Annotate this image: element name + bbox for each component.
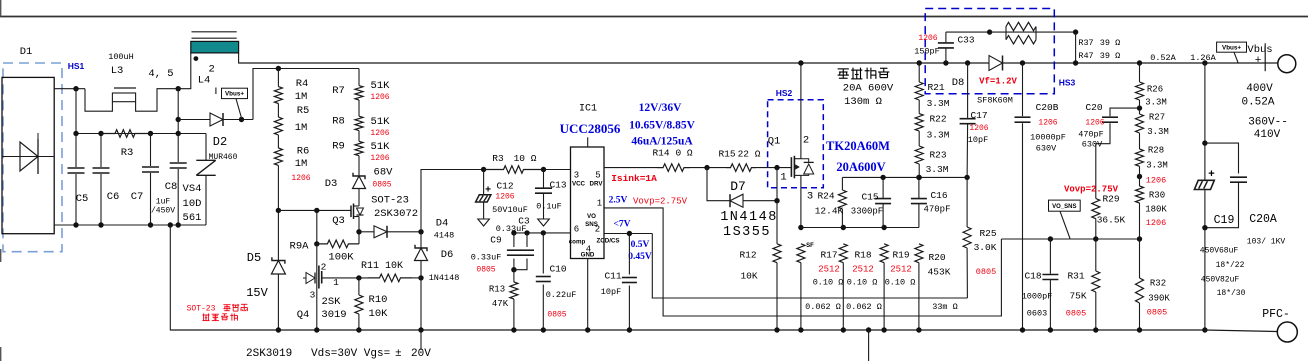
svg-text:C15: C15: [861, 192, 878, 203]
heatsink box HS1 around bridge D1: [3, 63, 62, 252]
svg-text:SF: SF: [806, 243, 814, 249]
IC1 top stub: [587, 137, 589, 147]
svg-text:SF8K60M: SF8K60M: [977, 96, 1013, 106]
node C20B bus: [1020, 60, 1025, 65]
svg-text:ZCD/CS: ZCD/CS: [596, 238, 619, 245]
wire D7 left drop: [707, 168, 730, 201]
svg-text:R4: R4: [296, 78, 309, 90]
svg-text:0.33uF: 0.33uF: [496, 224, 527, 234]
wire C20A branch: [1205, 143, 1239, 173]
node R29 bottom: [1093, 236, 1098, 241]
node D7 anode: [774, 198, 779, 203]
svg-text:1206: 1206: [969, 124, 988, 133]
svg-text:C17: C17: [970, 110, 987, 121]
node D6 bottom: [418, 327, 423, 332]
diode D4: [374, 226, 387, 238]
node R28 R30 junction: [1137, 174, 1142, 179]
node R19 bottom: [881, 327, 886, 332]
resistor R25: [966, 177, 968, 227]
wire VCC riser: [421, 170, 484, 232]
zener D6: [420, 232, 422, 248]
svg-text:C5: C5: [76, 193, 89, 205]
node C18 bottom: [1048, 327, 1053, 332]
svg-text:2SK: 2SK: [322, 296, 342, 308]
svg-text:3.3M: 3.3M: [1146, 161, 1168, 171]
resistor R13: [513, 270, 515, 282]
snubber resistor R37: [1005, 27, 1007, 33]
node R19 top: [881, 225, 886, 230]
node R32 bottom: [1137, 327, 1142, 332]
node C18 top: [1048, 236, 1053, 241]
wire gnd to PFC-: [1205, 330, 1277, 332]
svg-text:10D: 10D: [183, 198, 202, 210]
capacitor C9: [513, 233, 515, 247]
svg-text:R11 10K: R11 10K: [361, 261, 403, 272]
capacitor C7: [150, 134, 152, 167]
node R11 tap: [418, 275, 423, 280]
transistor Q4: [316, 244, 318, 330]
svg-text:18*/22: 18*/22: [1216, 261, 1245, 270]
svg-text:1S355: 1S355: [723, 225, 771, 240]
svg-text:0.062 Ω: 0.062 Ω: [846, 302, 882, 312]
node C33 bus: [943, 60, 948, 65]
wire pin3: [544, 169, 571, 171]
node Q1 source: [798, 225, 803, 230]
inductor L4 core bars: [192, 31, 237, 33]
svg-text:68V: 68V: [374, 167, 394, 179]
resistor R31: [1095, 239, 1097, 271]
svg-text:R23: R23: [929, 150, 946, 161]
svg-text:3: 3: [574, 171, 579, 181]
wire pin2 route down: [652, 234, 967, 299]
svg-text:4, 5: 4, 5: [148, 68, 173, 80]
wire comp line: [514, 232, 571, 234]
svg-text:2SK3072: 2SK3072: [374, 208, 418, 220]
svg-text:1: 1: [333, 277, 339, 288]
svg-text:R3: R3: [492, 153, 504, 164]
svg-text:1206: 1206: [1038, 119, 1057, 128]
svg-text:L3: L3: [111, 65, 124, 77]
node C11 bottom: [627, 327, 632, 332]
node Q1 drain bus: [798, 60, 803, 65]
svg-text:100uH: 100uH: [108, 52, 134, 62]
wire D2 cathode up to second bus: [253, 69, 359, 120]
node C16 top: [916, 175, 921, 180]
capacitor C12 polarized: [483, 170, 485, 195]
wire R9A right up: [358, 232, 360, 244]
svg-text:R3: R3: [121, 147, 134, 159]
svg-text:0 Ω: 0 Ω: [675, 148, 692, 159]
wire main ground bus: [170, 329, 1205, 331]
wire Q3 gate line: [278, 209, 351, 211]
svg-text:450V68uF: 450V68uF: [1200, 247, 1239, 256]
svg-text:410V: 410V: [1254, 129, 1281, 141]
wire bridge+ to node: [54, 88, 85, 90]
ground arrow C12: [478, 219, 490, 226]
diode D2: [210, 113, 223, 126]
wire snubber right down: [1075, 32, 1077, 63]
svg-text:5: 5: [595, 171, 600, 181]
Vbus+ label box near D2: [222, 88, 248, 98]
wire CS node line: [801, 227, 919, 229]
wire R15 to gate: [756, 167, 791, 169]
svg-text:20A 600V: 20A 600V: [843, 83, 894, 95]
svg-text:360V--: 360V--: [1248, 117, 1288, 129]
resistor R3 vcc: [484, 166, 544, 174]
svg-text:1uF: 1uF: [156, 198, 171, 207]
wire pin2 route: [604, 233, 652, 235]
resistor R4: [277, 69, 279, 87]
inductor L3 winding: [85, 89, 112, 112]
svg-text:PFC-: PFC-: [1262, 308, 1290, 321]
capacitor C10: [542, 233, 544, 274]
node D7 top: [704, 165, 709, 170]
svg-text:IC1: IC1: [579, 104, 597, 115]
bridge rectifier internal line: [2, 156, 54, 158]
node C13 top: [541, 167, 546, 172]
node R31 bottom: [1093, 327, 1098, 332]
svg-text:1M: 1M: [295, 158, 308, 170]
node C17 bus: [965, 60, 970, 65]
svg-text:10.65V/8.85V: 10.65V/8.85V: [629, 120, 696, 132]
node cap bus left: [73, 131, 78, 136]
svg-text:0805: 0805: [547, 311, 566, 320]
node D5 bottom: [276, 327, 281, 332]
svg-text:150pF: 150pF: [914, 47, 940, 57]
svg-text:R24: R24: [817, 191, 834, 202]
resistor R20: [915, 244, 923, 263]
resistor R10: [358, 278, 360, 295]
node B L3/L4 junction: [176, 86, 181, 91]
resistor R12: [776, 201, 778, 244]
node R6 bottom gate node: [276, 208, 281, 213]
svg-text:R7: R7: [332, 85, 345, 97]
resistor R15: [726, 164, 756, 172]
node R26 top: [1137, 60, 1142, 65]
svg-text:R26: R26: [1147, 85, 1163, 95]
svg-text:1206: 1206: [1146, 218, 1166, 228]
snubber wire mid: [990, 31, 1076, 33]
resistor R18: [839, 244, 847, 263]
svg-text:18*/30: 18*/30: [1217, 289, 1246, 298]
svg-text:HS2: HS2: [776, 88, 793, 98]
resistor R28: [1139, 133, 1141, 149]
svg-text:Q1: Q1: [768, 136, 781, 148]
svg-text:1206: 1206: [1146, 176, 1166, 186]
svg-text:R19: R19: [892, 250, 909, 261]
svg-text:75K: 75K: [1069, 291, 1086, 302]
svg-text:D6: D6: [441, 249, 454, 261]
svg-text:3: 3: [807, 191, 813, 203]
svg-text:50V10uF: 50V10uF: [492, 205, 528, 215]
svg-text:D4: D4: [436, 218, 449, 230]
resistor R29: [1092, 199, 1100, 219]
node Q3 source: [356, 229, 361, 234]
svg-text:Vbus+: Vbus+: [1222, 44, 1241, 51]
svg-text:C18: C18: [1024, 271, 1041, 282]
svg-text:3: 3: [310, 290, 316, 301]
wire D4 cathode: [387, 231, 421, 233]
wire main top bus D8 to Vbus: [1003, 62, 1278, 64]
IC1 box: [571, 147, 605, 259]
wire gate down to D7: [776, 168, 778, 201]
wire Q1 drain: [800, 63, 802, 159]
svg-text:3.3M: 3.3M: [927, 130, 950, 141]
resistor R9: [358, 131, 360, 142]
resistor R17: [797, 244, 805, 263]
svg-text:453K: 453K: [928, 267, 951, 278]
svg-text:C20A: C20A: [1249, 213, 1277, 226]
capacitor C11: [628, 234, 630, 275]
svg-text:2: 2: [803, 135, 809, 147]
svg-text:12.4K: 12.4K: [815, 206, 844, 217]
svg-text:R18: R18: [854, 250, 871, 261]
svg-text:0.10 Ω: 0.10 Ω: [813, 278, 844, 288]
snubber resistor R47: [1005, 32, 1007, 40]
leader Vbus+ right: [1234, 52, 1238, 63]
node R30 bottom: [1137, 236, 1142, 241]
svg-text:390K: 390K: [1148, 294, 1170, 304]
wire node down to cap bus: [75, 89, 77, 134]
capacitor C19 polarized: [1204, 171, 1206, 181]
L4 polarity dot: [194, 56, 199, 61]
svg-text:0.1uF: 0.1uF: [536, 202, 562, 212]
resistor R5: [277, 104, 279, 118]
svg-text:C20B: C20B: [1036, 102, 1059, 113]
svg-text:3.0K: 3.0K: [974, 242, 997, 253]
node output drop: [1202, 60, 1207, 65]
svg-text:SOT-23: SOT-23: [371, 195, 409, 207]
svg-text:33m Ω: 33m Ω: [932, 302, 958, 312]
svg-text:400V: 400V: [1246, 83, 1273, 95]
wire caps to gnd: [1204, 228, 1206, 330]
node R18 bottom: [841, 327, 846, 332]
wire R14 to R15: [690, 167, 726, 169]
svg-text:470pF: 470pF: [1078, 130, 1104, 140]
svg-text:DRV: DRV: [590, 181, 604, 188]
wire L4 right pin to top bus: [239, 53, 250, 63]
svg-text:R30: R30: [1149, 191, 1165, 201]
node C6 bottom: [98, 222, 103, 227]
svg-text:630V: 630V: [1036, 144, 1057, 154]
svg-text:C6: C6: [107, 191, 120, 203]
svg-text:R12: R12: [739, 250, 756, 261]
zener D3: [358, 156, 360, 176]
node R12 bottom: [774, 327, 779, 332]
wire input bottom bus: [54, 224, 206, 226]
wire ZCD node line: [842, 176, 967, 178]
svg-text:R20: R20: [928, 252, 945, 263]
svg-text:1M: 1M: [295, 122, 308, 134]
node R18 top: [841, 225, 846, 230]
svg-text:0.33uF: 0.33uF: [471, 253, 502, 263]
node C15 top: [880, 175, 885, 180]
svg-text:3019: 3019: [321, 309, 346, 321]
svg-text:C9: C9: [490, 235, 502, 246]
svg-text:D5: D5: [247, 251, 261, 265]
wire snubber top left: [946, 31, 990, 33]
resistor R9A: [317, 240, 359, 248]
leader VO_SNS: [1060, 211, 1070, 238]
svg-text:2.5V: 2.5V: [609, 196, 628, 206]
node R26 R27 junction: [1137, 105, 1142, 110]
svg-text:C7: C7: [131, 191, 144, 203]
svg-text:/450V: /450V: [151, 207, 175, 216]
node C8 bottom: [176, 222, 181, 227]
node C6 top: [98, 131, 103, 136]
node gate D7: [774, 165, 779, 170]
svg-text:1206: 1206: [495, 193, 514, 202]
svg-text:2: 2: [595, 225, 600, 235]
svg-text:130m Ω: 130m Ω: [844, 96, 882, 108]
svg-text:R21: R21: [927, 82, 944, 93]
svg-text:10 Ω: 10 Ω: [514, 153, 537, 164]
svg-text:36.5K: 36.5K: [1097, 215, 1126, 226]
node R9A left: [314, 241, 319, 246]
note actual-selection cjk: [838, 68, 849, 70]
Vbus+ label box: [1217, 42, 1247, 52]
note package small cjk: [202, 314, 209, 316]
svg-text:R22: R22: [929, 114, 946, 125]
wire node B down: [177, 89, 179, 134]
svg-text:R8: R8: [332, 116, 345, 128]
node R20 bottom: [916, 327, 921, 332]
svg-text:10K: 10K: [740, 271, 757, 282]
svg-text:D7: D7: [730, 179, 746, 194]
svg-text:20A600V: 20A600V: [836, 160, 885, 174]
node R21 top: [917, 60, 922, 65]
svg-text:1.26A: 1.26A: [1190, 53, 1216, 63]
VO_SNS label box: [1049, 200, 1081, 211]
node gnd stub: [866, 327, 871, 332]
wire DRV out: [604, 167, 657, 169]
node C10 bottom: [541, 327, 546, 332]
svg-text:0.10 Ω: 0.10 Ω: [847, 278, 878, 288]
svg-text:R6: R6: [297, 146, 310, 158]
svg-text:±: ±: [395, 348, 402, 360]
svg-text:R14: R14: [652, 148, 669, 159]
ground arrow C13: [538, 219, 550, 226]
svg-text:C33: C33: [957, 35, 974, 46]
capacitor C20B: [1022, 63, 1024, 116]
svg-text:comp: comp: [569, 239, 586, 246]
svg-text:4148: 4148: [434, 231, 454, 241]
svg-text:10000pF: 10000pF: [1030, 133, 1066, 143]
node bridge plus: [73, 86, 78, 91]
capacitor C5: [75, 134, 77, 168]
svg-text:0.22uF: 0.22uF: [546, 290, 577, 300]
svg-text:C12: C12: [496, 181, 513, 192]
zener D5: [277, 210, 279, 260]
node C9 top: [511, 230, 516, 235]
diode D8: [989, 56, 1003, 71]
svg-text:Isink=1A: Isink=1A: [611, 173, 657, 184]
resistor R26: [1139, 63, 1141, 82]
svg-text:VO_SNS: VO_SNS: [1052, 204, 1076, 210]
resistor R32: [1139, 239, 1141, 278]
svg-text:46uA/125uA: 46uA/125uA: [631, 136, 693, 148]
transistor Q3: [350, 206, 352, 218]
tick near Vbus+ box: [215, 88, 217, 95]
svg-text:Vovp=2.75V: Vovp=2.75V: [1064, 185, 1119, 195]
capacitor C13: [543, 170, 545, 189]
wire second bus to R7: [358, 69, 360, 86]
svg-text:0.10 Ω: 0.10 Ω: [885, 278, 916, 288]
svg-text:15V: 15V: [246, 286, 268, 300]
capacitor C3: [526, 233, 528, 247]
capacitor C20A: [1230, 176, 1247, 178]
node R10 top: [356, 275, 361, 280]
heatsink box HS2: [768, 100, 824, 188]
wire main top bus L4 to D8: [239, 62, 989, 64]
inductor L3 core bar: [114, 87, 136, 89]
svg-text:6: 6: [574, 225, 579, 235]
svg-text:C8: C8: [165, 181, 178, 193]
node gnd drop: [168, 222, 173, 227]
diode D7: [729, 194, 731, 207]
svg-text:C20: C20: [1085, 102, 1102, 113]
node C9 bottom: [511, 267, 516, 272]
svg-text:2: 2: [321, 262, 327, 273]
svg-text:180K: 180K: [1145, 205, 1167, 215]
svg-text:450V82uF: 450V82uF: [1201, 276, 1240, 285]
svg-text:VS4: VS4: [183, 183, 202, 195]
node snubber bus right: [1073, 60, 1078, 65]
svg-text:UCC28056: UCC28056: [560, 121, 621, 136]
svg-text:10pF: 10pF: [968, 135, 988, 145]
wire pin1 route: [604, 208, 1001, 316]
inductor L4 body: [191, 41, 239, 53]
node C5 bottom: [73, 222, 78, 227]
terminal Vbus circle: [1278, 55, 1296, 73]
resistor R21: [918, 63, 920, 82]
node C3 top: [524, 230, 529, 235]
svg-text:1000pF: 1000pF: [1022, 292, 1053, 302]
svg-text:10pF: 10pF: [601, 287, 621, 297]
svg-text:R15: R15: [718, 149, 735, 160]
svg-text:R37: R37: [1078, 38, 1093, 48]
svg-text:630V: 630V: [1082, 140, 1103, 150]
wire D7 anode: [743, 200, 777, 202]
capacitor C33: [945, 49, 947, 64]
svg-text:0.52A: 0.52A: [1241, 97, 1274, 109]
svg-text:51K: 51K: [371, 116, 391, 128]
svg-text:1206: 1206: [1085, 119, 1104, 128]
resistor R30: [1139, 166, 1141, 186]
wire to D2: [178, 119, 210, 121]
svg-text:VCC: VCC: [572, 181, 586, 188]
svg-text:0805: 0805: [476, 266, 495, 275]
svg-text:R28: R28: [1148, 146, 1164, 156]
resistor R6: [277, 135, 279, 148]
svg-text:HS1: HS1: [68, 61, 85, 71]
svg-text:R47: R47: [1078, 51, 1093, 61]
node R4 top: [276, 66, 281, 71]
svg-text:Q4: Q4: [297, 309, 310, 321]
resistor R23: [918, 131, 920, 146]
svg-text:12V/36V: 12V/36V: [639, 102, 683, 114]
resistor R19: [880, 244, 888, 263]
wire pin4 gnd: [587, 259, 589, 331]
transistor Q1: [790, 157, 792, 177]
svg-text:1: 1: [780, 172, 786, 184]
svg-text:Vf=1.2V: Vf=1.2V: [979, 77, 1017, 87]
node D4 cathode: [418, 229, 423, 234]
node R23 bottom: [917, 175, 922, 180]
node C8 top: [176, 131, 181, 136]
note these two cjk: [223, 304, 230, 306]
svg-text:1206: 1206: [370, 154, 389, 163]
